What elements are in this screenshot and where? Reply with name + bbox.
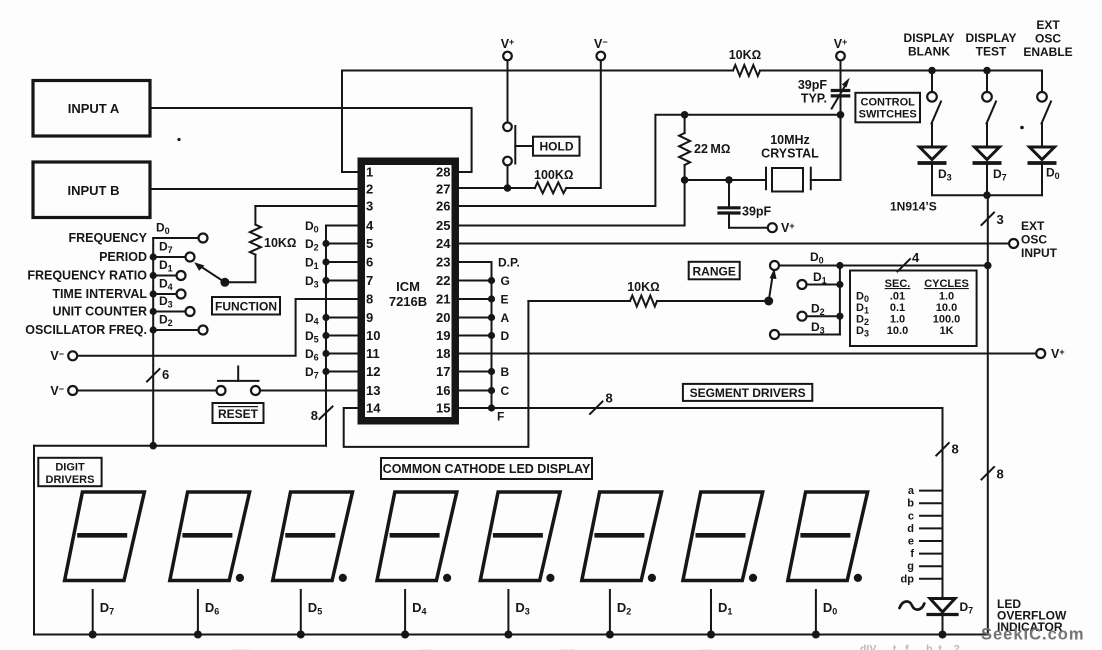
node digit bus dots [322,240,329,375]
svg-text:......: ...... [232,642,250,650]
slash 8 segment bus vertical [936,442,958,457]
switch HOLD [503,123,531,166]
switch DISPLAY TEST [982,71,996,148]
svg-text:21: 21 [436,292,450,307]
diode D3 [918,147,952,195]
svg-text:DISPLAY: DISPLAY [966,31,1017,45]
terminal V+ (hold) [501,37,515,60]
wire segment 8-line bus to right [492,408,943,597]
terminal range D0 [770,250,840,270]
terminal TIME INTERVAL D4 [153,277,185,299]
svg-text:OSC: OSC [1021,233,1047,247]
svg-text:CYCLES: CYCLES [924,278,969,290]
svg-text:5: 5 [366,236,373,251]
seven-segment display DS4 (D4) [377,492,457,639]
node range D0 junction [984,262,992,270]
svg-text:RESET: RESET [218,407,259,421]
node pin27/hold junction [504,184,512,192]
svg-text:g: g [907,561,914,573]
node overflow junction [939,631,947,639]
svg-text:13: 13 [366,383,380,398]
svg-text:CRYSTAL: CRYSTAL [761,147,819,161]
wire pin 14 range detour [344,301,529,447]
svg-text:ENABLE: ENABLE [1023,45,1072,59]
svg-text:7: 7 [366,273,373,288]
wire display enclosure left and bottom [34,446,988,635]
svg-text:B: B [501,365,510,379]
svg-text:HOLD: HOLD [540,140,574,154]
op-amp U1 ICM 7216B body [361,161,455,421]
svg-text:PERIOD: PERIOD [99,250,147,264]
svg-text:1.0: 1.0 [939,291,954,303]
terminal V- (hold) [594,37,608,60]
svg-text:f: f [910,548,914,560]
wire range D0 to right bus [840,265,988,267]
node top bus dots [928,67,991,75]
svg-text:DRIVERS: DRIVERS [46,474,95,486]
svg-text:28: 28 [436,165,450,180]
terminal range D3 [770,320,840,339]
terminal EXT OSC INPUT [1009,219,1058,260]
svg-text:14: 14 [366,401,381,416]
diode D0 [1028,147,1060,195]
wire pin 22 stub [459,280,492,282]
node crystal/varcap junction [837,111,845,119]
resistor 10K ohm (function) [250,206,297,282]
node 22M bottom [681,176,689,184]
resistor 22M ohm [679,115,730,180]
labels function modes [25,231,147,337]
svg-text:DIGIT: DIGIT [55,462,85,474]
svg-text:SEC.: SEC. [885,278,911,290]
slash 6 on function bus [147,367,169,382]
seven-segment display DS8 (D0) [788,492,868,639]
svg-text:D: D [501,329,510,343]
svg-text:20: 20 [436,310,450,325]
svg-text:22: 22 [436,273,450,288]
wire pin 21 stub [459,298,492,300]
squiggle ac symbol [900,601,925,609]
label box HOLD [533,137,580,156]
wire overflow stub [942,597,944,614]
seven-segment display DS1 (D7) [65,492,145,639]
seven-segment display DS3 (D5) [273,492,353,639]
node 22M top [681,111,689,119]
svg-text:10.0: 10.0 [936,302,957,314]
wire pin 9 stub [326,317,358,319]
resistor 10K ohm (top bus) [733,65,760,76]
svg-text:CONTROL: CONTROL [861,97,916,109]
slash 4 [898,250,921,272]
svg-text:D.P.: D.P. [498,256,520,270]
node range bus dots [836,262,843,320]
wire pin 20 stub [459,317,492,319]
wire pin 17 stub [459,371,492,373]
svg-text:15: 15 [436,401,450,416]
wire diode bus [932,194,1042,196]
wire pin 19 stub [459,335,492,337]
wire range bus vertical [839,266,841,335]
wire crystal right to top junction [811,115,841,180]
terminal V- (pin 8) [50,349,77,363]
svg-text:a: a [908,485,915,497]
wire diode bus down right side [987,195,989,634]
svg-text:FREQUENCY: FREQUENCY [69,231,148,245]
svg-text:1K: 1K [939,325,953,337]
svg-text:d: d [907,523,914,535]
label box COMMON CATHODE LED DISPLAY [381,458,592,479]
svg-text:8: 8 [997,467,1004,482]
label box DIGIT DRIVERS [38,458,101,486]
svg-text:27: 27 [436,182,450,197]
svg-text:8: 8 [952,442,959,457]
resistor 10K ohm (range) [528,300,630,302]
svg-text:2: 2 [366,182,373,197]
node diode bus junction [983,191,991,199]
svg-text:17: 17 [436,364,450,379]
svg-text:A: A [501,311,510,325]
svg-text:DISPLAY: DISPLAY [904,31,955,45]
svg-text:100KΩ: 100KΩ [534,168,573,182]
slash 8 on digit bus [311,407,333,424]
wire V- to pin 8 [77,299,357,356]
wire V- to 100K [566,60,601,188]
switch FUNCTION wiper arrow [194,262,255,287]
seven-segment display DS5 (D3) [480,492,560,639]
wire display enclosure top [34,445,326,447]
switch EXT OSC ENABLE [1037,71,1051,148]
wire pin 7 stub [326,280,358,282]
resistor 100K ohm [535,182,566,193]
diode D7 overflow [928,599,973,635]
node segment bus dots [488,277,495,412]
svg-text:OSC: OSC [1035,32,1061,46]
svg-text:8: 8 [311,408,318,423]
wire V- to reset switch [77,390,216,392]
svg-text:9: 9 [366,310,373,325]
labels DISPLAY BLANK / DISPLAY TEST / EXT OSC ENABLE [904,31,955,59]
wire pin 11 stub [326,353,358,355]
scan speck [177,138,180,141]
svg-text:6: 6 [162,367,169,382]
svg-text:dIV... .t .f... .b..t.. ?: dIV... .t .f... .b..t.. ? [860,643,960,650]
label box CONTROL SWITCHES [855,93,920,123]
wire pin 3 [255,205,357,207]
svg-text:10KΩ: 10KΩ [264,236,297,250]
terminal UNIT COUNTER D3 [153,294,194,316]
svg-text:....: .... [420,642,432,650]
svg-text:C: C [501,384,510,398]
svg-text:1.0: 1.0 [890,314,905,326]
svg-text:c: c [908,510,914,522]
wire V+ down to hold switch [507,60,509,122]
svg-text:39pF: 39pF [798,78,828,92]
svg-text:10.0: 10.0 [887,325,908,337]
svg-text:8: 8 [606,391,613,406]
svg-text:1N914’S: 1N914’S [890,200,937,214]
svg-text:F: F [497,410,504,424]
svg-text:12: 12 [366,364,380,379]
seven-segment display DS6 (D2) [582,492,662,639]
label box FUNCTION [212,297,280,315]
terminal V+ (varcap) [834,37,848,60]
svg-text:4: 4 [366,218,374,233]
svg-text:6: 6 [366,255,373,270]
svg-text:3: 3 [997,212,1004,227]
svg-text:10KΩ: 10KΩ [627,280,660,294]
bottom faint text fragments [232,642,960,650]
svg-text:BLANK: BLANK [908,45,950,59]
svg-text:COMMON CATHODE LED DISPLAY: COMMON CATHODE LED DISPLAY [383,462,591,476]
svg-text:SEGMENT DRIVERS: SEGMENT DRIVERS [690,386,806,400]
svg-text:RANGE: RANGE [693,265,736,279]
label box RANGE [689,262,740,280]
terminal V- (reset) [50,384,77,398]
svg-text:INPUT B: INPUT B [68,183,120,198]
svg-text:4: 4 [912,250,920,265]
svg-text:INPUT A: INPUT A [68,101,120,116]
svg-text:OSCILLATOR FREQ.: OSCILLATOR FREQ. [25,323,147,337]
svg-text:100.0: 100.0 [933,314,961,326]
svg-text:dp: dp [901,573,915,585]
svg-text:FUNCTION: FUNCTION [215,300,277,314]
svg-text:E: E [501,293,509,307]
seven-segment display DS7 (D1) [683,492,763,639]
slash 8 segment bus [590,391,613,415]
svg-text:ICM: ICM [396,279,420,294]
svg-text:26: 26 [436,199,450,214]
wire segment bus vertical (pins 23-15) [459,262,492,408]
wire pin 15 stub [459,407,492,409]
switch RESET pushbutton [217,367,261,396]
wire pin 10 stub [326,335,358,337]
svg-text:8: 8 [366,292,373,307]
svg-text:EXT: EXT [1021,219,1045,233]
svg-text:16: 16 [436,383,450,398]
slash 8 right side [982,467,1004,482]
svg-text:25: 25 [436,218,450,233]
svg-text:10KΩ: 10KΩ [729,48,762,62]
input box INPUT A [33,81,150,137]
terminal range D2 [798,302,840,321]
svg-text:e: e [908,536,914,548]
svg-text:11: 11 [366,346,380,361]
label box SEGMENT DRIVERS [683,384,812,401]
wire pin 27 [459,187,535,189]
label box RESET [213,403,264,423]
svg-text:7216B: 7216B [389,294,427,309]
svg-text:18: 18 [436,346,450,361]
wire function bus vertical [152,238,154,446]
node 39pF tap [725,176,733,184]
svg-text:SWITCHES: SWITCHES [859,109,917,121]
svg-text:1: 1 [366,165,373,180]
svg-text:FREQUENCY RATIO: FREQUENCY RATIO [27,269,147,283]
seven-segment display DS2 (D6) [170,492,250,639]
terminal FREQUENCY RATIO D1 [153,258,185,280]
capacitor 39pF TYP variable [798,60,850,115]
svg-text:10MHz: 10MHz [770,133,810,147]
pin numbers left 1-14 [366,165,381,416]
wire pin 6 stub [326,261,358,263]
wire pin 25 to crystal bottom [459,180,685,226]
node function bus dots [150,253,157,333]
svg-text:10: 10 [366,328,380,343]
svg-text:EXT: EXT [1036,18,1060,32]
node function bus to display [149,442,157,450]
svg-text:G: G [501,274,510,288]
svg-text:.01: .01 [890,291,905,303]
svg-text:24: 24 [436,236,451,251]
wire hold to pin 27 node [507,165,509,188]
scan speck [1020,126,1024,130]
terminal V+ right [1036,347,1064,361]
svg-text:0.1: 0.1 [890,302,905,314]
wire INPUT B to pin 2 [151,188,358,190]
svg-text:TIME INTERVAL: TIME INTERVAL [52,287,147,301]
terminal V+ (39pF) [729,221,795,235]
svg-text:.....: ..... [560,642,575,650]
segment ladder ticks a-dp [920,491,943,579]
svg-text:b: b [907,498,914,510]
diode D7 [973,147,1007,195]
wire reset to pin 13 [260,390,358,392]
wire crystal bottom line [685,179,766,181]
svg-text:39pF: 39pF [742,205,772,219]
svg-text:SeekIC.com: SeekIC.com [981,626,1085,644]
slash 3 [982,212,1004,227]
svg-text:19: 19 [436,328,450,343]
wire pin 5 stub [326,243,358,245]
svg-text:UNIT COUNTER: UNIT COUNTER [53,305,147,319]
capacitor 39pF (fixed) [719,180,772,228]
switch RANGE wiper arrow [764,269,776,306]
labels LED OVERFLOW INDICATOR [997,597,1067,634]
terminal OSCILLATOR FREQ D2 [153,313,207,335]
input box INPUT B [33,162,150,218]
wire INPUT A to pin 28 [151,108,472,172]
wire 10K to range wiper [657,300,769,302]
wire pin 26 to crystal top [459,115,841,206]
table range/cycles box [850,271,977,347]
wire pin 24 to EXT OSC INPUT [459,243,1009,245]
wire pin 16 stub [459,390,492,392]
svg-text:23: 23 [436,255,450,270]
labels digit bus D0 D2 D1 D3 D4 D5 D6 D7 [305,219,319,381]
wire top bus left (pin 1 net) [342,71,733,173]
labels segment ladder [901,485,915,585]
terminal range D1 [798,270,840,289]
terminal PERIOD D7 [153,240,194,262]
svg-text:TYP.: TYP. [801,92,827,106]
wire top bus right [760,70,1042,72]
labels segment pins D.P. G E A D B C F [497,256,520,424]
svg-text:TEST: TEST [976,45,1007,59]
pin numbers right 28-15 [436,165,451,416]
terminal FREQUENCY D0 [153,221,207,243]
wire digit bus (pins 4-12) [326,226,358,446]
svg-text:....: .... [700,642,712,650]
wire pin 12 stub [326,371,358,373]
svg-text:3: 3 [366,199,373,214]
switch DISPLAY BLANK [927,71,941,148]
svg-text:22 MΩ: 22 MΩ [694,142,730,156]
crystal 10MHz [761,133,819,192]
svg-text:INPUT: INPUT [1021,246,1058,260]
wire pin 18 to V+ [459,353,1036,355]
